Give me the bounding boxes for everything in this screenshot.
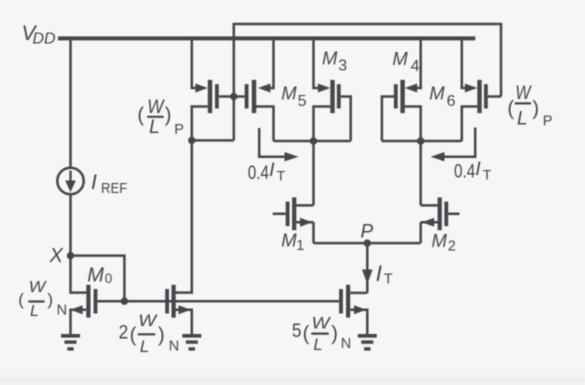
svg-text:P: P (361, 222, 374, 243)
svg-text:P: P (174, 122, 184, 138)
svg-text:N: N (341, 336, 351, 352)
ground (2WL source) (182, 336, 201, 349)
svg-text:L: L (30, 303, 39, 320)
svg-text:W: W (29, 279, 48, 296)
wire M6 source from VDD (462, 38, 466, 88)
wire M2 source to tail bus (419, 222, 422, 243)
wire M5 gate lead (234, 95, 245, 98)
svg-text:): ) (47, 290, 53, 309)
label M6 (429, 82, 455, 110)
label VDD (22, 22, 57, 48)
label (W/L)P right (507, 83, 552, 130)
svg-text:0: 0 (105, 271, 113, 286)
node P (364, 239, 371, 246)
wire M2 drain lead (421, 204, 438, 207)
wire M6 gate lead (488, 95, 501, 98)
svg-text:M: M (281, 82, 297, 103)
label 0.4IT right (454, 159, 492, 183)
label 5(W/L)N (292, 313, 351, 353)
label (W/L)N left (18, 279, 67, 320)
svg-text:(: ( (137, 105, 144, 127)
node PMOS diode drain (188, 137, 195, 144)
svg-text:L: L (140, 337, 149, 356)
wire node X to M0 gate net (71, 256, 125, 302)
label M1 (281, 229, 304, 253)
svg-text:M: M (432, 230, 448, 251)
svg-text:(: ( (507, 98, 514, 120)
transistor M0 (W/L)N diode (70, 285, 97, 318)
svg-text:T: T (483, 167, 492, 183)
wire node P down to tail transistor (366, 243, 369, 293)
svg-text:I: I (91, 171, 97, 194)
svg-text:): ) (532, 98, 539, 120)
wire M0 source to ground (71, 310, 87, 334)
current annotation 0.4IT right (431, 128, 476, 162)
label IREF (91, 171, 127, 197)
wire T1 gate lead (219, 95, 234, 98)
wire M5 drain down to node L (256, 107, 274, 142)
svg-text:W: W (515, 83, 532, 104)
label 0.4IT left (248, 160, 286, 184)
wire M4 source from VDD (416, 38, 421, 88)
wire M5 source from VDD (269, 38, 274, 88)
wire diode node to gate column (192, 139, 234, 142)
transistor M3 diode (318, 80, 341, 113)
wire NMOS gate bus (97, 300, 339, 303)
transistor 2(W/L)N mirror (165, 285, 191, 318)
svg-text:I: I (475, 159, 481, 180)
svg-text:(: ( (130, 325, 137, 347)
svg-text:DD: DD (33, 31, 57, 48)
wire IREF feed from VDD (69, 38, 72, 168)
wire tail drain lead (350, 292, 367, 295)
svg-text:(: ( (18, 290, 24, 309)
wire tail source to ground (350, 310, 367, 334)
wire 2WL drain up to PMOS diode node (175, 140, 191, 292)
wire M1 source lead (296, 221, 313, 224)
ground (M0 source) (61, 336, 80, 349)
label M2 (432, 230, 456, 255)
label M3 (322, 47, 347, 74)
svg-text:5: 5 (292, 320, 302, 342)
svg-text:1: 1 (296, 238, 304, 254)
transistor M6 (W/L)P (465, 80, 488, 113)
top gate bias wire (234, 24, 501, 140)
wire M2 gate stub (448, 213, 459, 216)
label IT (376, 261, 393, 287)
svg-text:2: 2 (448, 239, 456, 255)
wire M6 drain down to node R (462, 107, 478, 142)
wire M4 gate elbow (382, 97, 394, 142)
svg-text:3: 3 (338, 57, 347, 74)
wire M1 source to tail bus (312, 222, 315, 243)
svg-text:M: M (87, 265, 104, 287)
svg-text:L: L (313, 335, 322, 354)
label M5 (281, 82, 306, 110)
svg-text:N: N (169, 339, 179, 355)
svg-text:M: M (322, 47, 338, 68)
label M4 (392, 48, 419, 75)
transistor M5 (245, 80, 271, 113)
current arrow IT (362, 270, 373, 285)
svg-text:I: I (269, 160, 275, 181)
svg-text:): ) (331, 323, 338, 345)
label 2(W/L)N (119, 311, 180, 356)
svg-text:): ) (165, 105, 172, 127)
wire M1 gate stub (273, 213, 286, 216)
wire M3 drain / M1 drain column (314, 107, 331, 206)
label (W/L)P left (137, 97, 184, 138)
current source IREF (57, 168, 83, 194)
svg-text:REF: REF (101, 181, 127, 197)
svg-text:5: 5 (298, 93, 307, 110)
wire node L horizontal (274, 140, 351, 143)
wire M3 gate elbow (341, 97, 351, 142)
svg-text:4: 4 (411, 58, 420, 75)
transistor T1 PMOS diode (W/L)P (195, 80, 218, 113)
wire node R horizontal (382, 140, 462, 143)
wire IREF to node X and M0 drain (71, 194, 87, 292)
svg-text:L: L (149, 117, 160, 138)
wire M4 drain / M2 drain column (405, 107, 421, 206)
svg-text:W: W (147, 97, 165, 118)
svg-text:M: M (392, 48, 408, 69)
svg-text:I: I (376, 261, 382, 286)
wire M1 drain lead (296, 204, 313, 207)
node M0 gate junction (121, 298, 128, 305)
ground (tail source) (358, 336, 377, 349)
svg-text:N: N (57, 303, 67, 319)
svg-text:0.4: 0.4 (454, 161, 475, 183)
svg-text:W: W (138, 311, 158, 330)
current annotation 0.4IT left (259, 128, 298, 161)
svg-text:6: 6 (447, 93, 456, 110)
wire M2 source lead (421, 221, 438, 224)
wire M3 source from VDD (314, 38, 319, 88)
node L (310, 137, 317, 144)
wire T1 drain to diode node (192, 107, 208, 141)
svg-text:T: T (277, 167, 286, 183)
power rail VDD (58, 36, 475, 40)
svg-text:M: M (281, 229, 297, 250)
svg-text:0.4: 0.4 (248, 162, 269, 184)
svg-text:): ) (158, 325, 165, 347)
label M0 (87, 265, 112, 287)
svg-text:2: 2 (119, 321, 129, 343)
transistor 5(W/L)N tail (339, 285, 366, 318)
node X (67, 252, 74, 259)
wire T1 source from VDD (192, 38, 196, 88)
transistor M2 (422, 197, 448, 230)
svg-text:M: M (429, 82, 445, 103)
transistor M4 diode (394, 80, 417, 113)
svg-text:(: ( (303, 323, 310, 345)
svg-text:T: T (384, 271, 393, 287)
svg-text:X: X (49, 245, 64, 267)
svg-text:W: W (312, 313, 332, 332)
node PMOS gate junction (230, 93, 237, 100)
svg-text:L: L (517, 109, 528, 130)
transistor M1 (286, 197, 313, 230)
svg-text:P: P (543, 114, 553, 130)
wire 2WL source to ground (175, 310, 191, 334)
node R (417, 137, 424, 144)
wire tail bus with node P (314, 242, 421, 245)
